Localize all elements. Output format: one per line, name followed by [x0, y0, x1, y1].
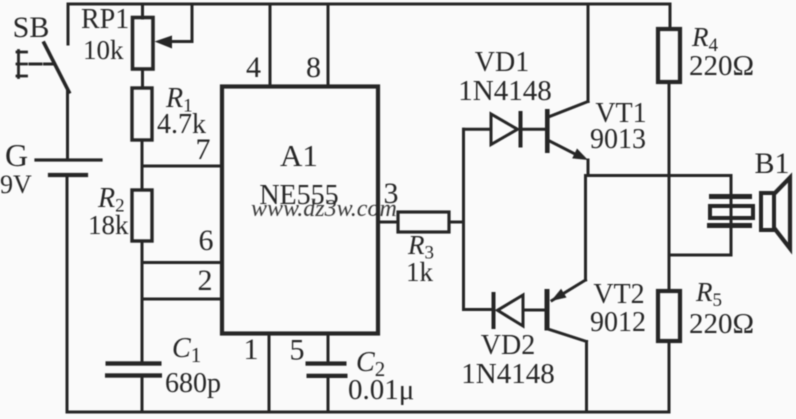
wire R5 to bottom rail: [668, 341, 671, 412]
svg-text:9V: 9V: [0, 170, 32, 199]
svg-text:18k: 18k: [88, 210, 129, 240]
wire R1 to R2: [141, 140, 144, 190]
capacitor C2: [306, 361, 348, 378]
svg-text:4: 4: [246, 51, 261, 84]
svg-text:2: 2: [198, 264, 213, 297]
wire C1 to bottom rail: [141, 378, 144, 413]
svg-text:10k: 10k: [83, 35, 124, 65]
capacitor C1: [105, 361, 162, 377]
svg-text:1k: 1k: [406, 257, 434, 287]
wire R2 to C1: [141, 241, 144, 362]
wire pin4: [269, 4, 272, 86]
diode VD1: [464, 113, 546, 146]
svg-text:www.dz3w.com: www.dz3w.com: [251, 196, 397, 222]
svg-text:1N4148: 1N4148: [458, 75, 551, 107]
svg-text:1N4148: 1N4148: [461, 358, 554, 390]
wire C2 to bottom rail: [327, 378, 330, 412]
wire top rail: [68, 4, 670, 44]
wire pin2: [142, 298, 222, 301]
wire diode node vertical: [462, 129, 465, 309]
svg-text:0.01μ: 0.01μ: [348, 374, 414, 406]
svg-text:VD2: VD2: [481, 330, 535, 361]
diode VD2: [464, 294, 546, 327]
wire battery to bottom rail: [66, 177, 69, 412]
potentiometer RP1: [133, 4, 193, 69]
wire pin8: [327, 4, 330, 86]
resistor R5: [658, 291, 680, 341]
svg-text:VD1: VD1: [475, 47, 529, 78]
wire pin3: [379, 221, 398, 224]
wire R3 to node: [449, 221, 464, 224]
wire rail to RP1: [141, 4, 144, 18]
resistor R3: [398, 212, 449, 232]
svg-text:1: 1: [244, 333, 259, 366]
svg-text:5: 5: [290, 334, 305, 367]
wire node to VT2 emitter: [584, 176, 587, 281]
wire speaker bottom: [669, 254, 731, 257]
svg-text:3: 3: [384, 177, 399, 210]
svg-text:B1: B1: [754, 147, 789, 180]
transistor VT2: [545, 280, 587, 412]
resistor R2: [132, 190, 152, 241]
speaker B1: [707, 176, 790, 255]
switch SB: [17, 43, 69, 92]
wire pin7: [142, 165, 222, 168]
svg-text:6: 6: [199, 224, 214, 257]
wire R4 to R5: [668, 82, 671, 291]
svg-text:9012: 9012: [590, 307, 646, 338]
svg-text:220Ω: 220Ω: [689, 50, 754, 82]
svg-text:A1: A1: [280, 138, 318, 173]
wire pin1: [268, 334, 271, 412]
resistor R1: [132, 88, 152, 140]
svg-text:680p: 680p: [165, 368, 221, 399]
battery G: [36, 160, 101, 175]
transistor VT1: [545, 4, 588, 176]
wire emitter node to speaker: [588, 174, 731, 177]
wire RP1 to R1: [141, 69, 144, 88]
wire bottom rail: [67, 411, 669, 414]
svg-text:RP1: RP1: [81, 4, 129, 35]
svg-text:9013: 9013: [590, 124, 646, 155]
wire pin5 to C2: [327, 334, 330, 362]
svg-text:VT2: VT2: [593, 279, 644, 310]
svg-text:SB: SB: [13, 11, 50, 44]
svg-text:7: 7: [196, 133, 211, 166]
svg-text:8: 8: [306, 51, 321, 84]
resistor R4: [658, 29, 680, 82]
svg-text:220Ω: 220Ω: [689, 308, 754, 340]
wire pin6: [142, 261, 222, 264]
svg-text:G: G: [5, 137, 28, 173]
wire switch to battery: [66, 91, 69, 160]
op-amp U1 IC A1 NE555 box: [222, 87, 378, 334]
